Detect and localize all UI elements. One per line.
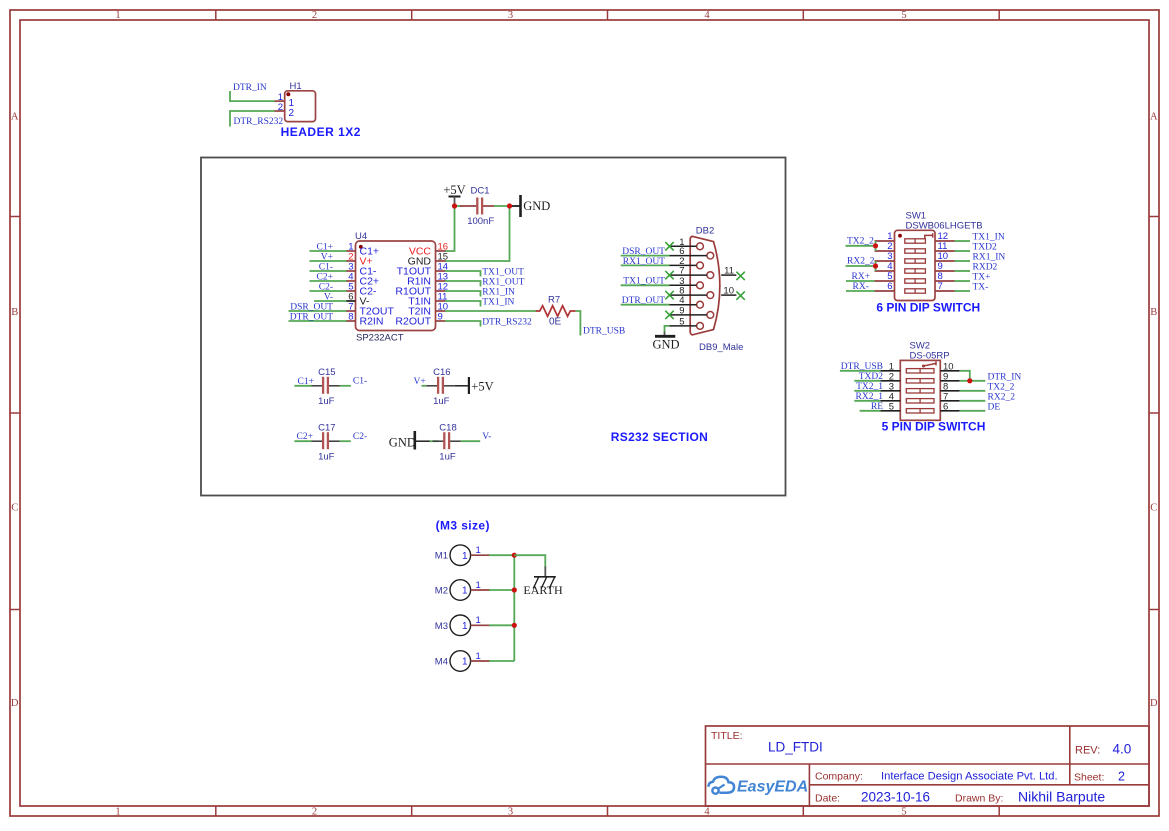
SW2 pin 7	[940, 400, 959, 402]
svg-text:EasyEDA: EasyEDA	[737, 779, 808, 796]
svg-text:TX2_2: TX2_2	[988, 382, 1015, 392]
svg-text:DSR_OUT: DSR_OUT	[622, 247, 665, 257]
svg-text:DTR_OUT: DTR_OUT	[622, 296, 665, 306]
svg-text:A: A	[11, 112, 19, 123]
SW1 switch element 5	[905, 279, 926, 283]
junction dot M3	[512, 623, 517, 628]
SW1 pin 4	[875, 270, 895, 272]
svg-text:C2-: C2-	[353, 432, 367, 442]
DB2 pin circle 3	[697, 282, 704, 289]
SW1 pin 9	[935, 270, 955, 272]
SW2 pin 4	[880, 400, 900, 402]
wire SW2 pin10 down to pin9 net	[960, 371, 970, 381]
U4 pin 3	[346, 270, 356, 272]
svg-text:RX1_IN: RX1_IN	[973, 253, 1006, 263]
svg-text:DTR_IN: DTR_IN	[233, 83, 267, 93]
SW1 pin 10	[935, 260, 955, 262]
svg-text:DTR_RS232: DTR_RS232	[482, 318, 532, 328]
svg-text:RE: RE	[871, 402, 883, 412]
SW2 switch element 5	[906, 409, 934, 413]
wire U4 to net RX1_OUT	[445, 281, 481, 287]
DB2 pin circle 6	[707, 252, 714, 259]
U4 pin 5	[346, 290, 356, 292]
wire DC1 to GND node	[494, 205, 510, 207]
svg-text:2: 2	[312, 807, 317, 818]
capacitor C17	[311, 440, 322, 442]
svg-text:DTR_USB: DTR_USB	[841, 362, 883, 372]
DB2 pin 11 lead	[721, 274, 736, 276]
capacitor DC1 plates	[476, 198, 478, 215]
wire M4 to earth bus	[489, 660, 514, 662]
U4 pin 14	[436, 270, 446, 272]
junction dot RX2_2	[873, 263, 878, 268]
SW2 switch element 1	[906, 369, 934, 373]
svg-text:1: 1	[476, 651, 481, 662]
no-connect X on DB2 pin 1	[665, 242, 673, 250]
resistor R7	[536, 306, 576, 317]
wire M2 to earth bus	[489, 589, 514, 591]
wire net RE to SW2 pin 5	[860, 410, 881, 412]
svg-text:RX1_IN: RX1_IN	[482, 288, 515, 298]
junction dot M2	[512, 587, 517, 592]
svg-text:C15: C15	[318, 367, 335, 378]
svg-text:Date:: Date:	[815, 793, 840, 805]
svg-text:DSR_OUT: DSR_OUT	[290, 302, 333, 312]
svg-text:6 PIN DIP SWITCH: 6 PIN DIP SWITCH	[876, 300, 980, 314]
header H1 body	[285, 91, 316, 122]
wire net V- to U4 pin 6	[314, 300, 347, 302]
SW2 pin 5	[880, 410, 900, 412]
svg-text:DTR_RS232: DTR_RS232	[234, 117, 284, 127]
svg-text:+5V: +5V	[471, 379, 493, 393]
SW1 switch element 3	[905, 259, 926, 263]
svg-text:1: 1	[476, 580, 481, 591]
wire DTR_RS232 to H1 pin2	[230, 111, 275, 127]
mounting hole M1	[450, 545, 471, 566]
wire SW1 pin 11 to net TXD2	[955, 250, 971, 252]
svg-text:DSWB06LHGETB: DSWB06LHGETB	[906, 220, 983, 231]
U4 pin 1	[346, 250, 356, 252]
wire U4 to net TX1_OUT	[445, 271, 481, 277]
svg-text:DE: DE	[988, 402, 1001, 412]
svg-text:M3: M3	[435, 621, 448, 632]
DB2 pin 10 lead	[721, 294, 736, 296]
svg-text:C1+: C1+	[298, 377, 314, 387]
svg-text:7: 7	[938, 281, 943, 292]
svg-text:10: 10	[723, 285, 734, 296]
wire SW1 pin 12 to net TX1_IN	[955, 240, 971, 242]
svg-text:C17: C17	[318, 422, 335, 433]
U4 pin 7	[346, 310, 356, 312]
M3 pin 1	[471, 624, 490, 626]
svg-text:LD_FTDI: LD_FTDI	[768, 740, 823, 755]
svg-text:4: 4	[704, 10, 710, 21]
svg-text:C18: C18	[439, 422, 456, 433]
wire M3 to earth bus	[489, 624, 514, 626]
svg-text:M1: M1	[435, 551, 448, 562]
svg-text:3: 3	[508, 10, 513, 21]
svg-text:100nF: 100nF	[467, 216, 494, 227]
wire net DSR_OUT to DB2 pin 6	[621, 255, 670, 257]
svg-text:TX+: TX+	[973, 273, 991, 283]
svg-text:EARTH: EARTH	[523, 583, 563, 597]
SW1 pin 1	[875, 240, 895, 242]
svg-text:6: 6	[943, 402, 948, 413]
svg-text:GND: GND	[523, 199, 550, 213]
no-connect X on DB2 pin 8	[665, 291, 673, 299]
wire GND to C18	[430, 440, 439, 442]
SW2 pin 1	[880, 370, 900, 372]
svg-text:C1-: C1-	[319, 262, 333, 272]
wire net DTR_USB to SW2 pin 1	[840, 370, 880, 372]
SW2 switch element 2	[906, 379, 934, 383]
svg-text:TX1_OUT: TX1_OUT	[482, 268, 524, 278]
wire net DSR_OUT to U4 pin 7	[289, 310, 347, 312]
SW1 actuator mark	[925, 233, 933, 239]
svg-text:C2+: C2+	[297, 432, 313, 442]
wire net RX+ to SW1 pin5	[846, 280, 875, 282]
svg-text:TX1_IN: TX1_IN	[482, 298, 514, 308]
switch SW2 body	[900, 360, 940, 420]
junction dot at +5V node	[452, 203, 457, 208]
frame column ticks bottom	[215, 806, 217, 816]
svg-text:Drawn By:: Drawn By:	[955, 793, 1003, 805]
svg-text:3: 3	[508, 807, 513, 818]
SW1 pin1 dot	[898, 234, 902, 238]
connector DB2 body	[690, 236, 720, 335]
svg-text:2023-10-16: 2023-10-16	[861, 790, 930, 805]
svg-text:1uF: 1uF	[439, 452, 456, 463]
wire net C2+ to U4 pin 4	[310, 280, 347, 282]
svg-text:RX1_OUT: RX1_OUT	[482, 278, 524, 288]
svg-text:C2+: C2+	[317, 272, 333, 282]
svg-text:M4: M4	[435, 657, 448, 668]
capacitor DC1 pin 1	[460, 205, 477, 207]
SW1 switch element 4	[905, 269, 926, 273]
svg-text:C1+: C1+	[317, 242, 333, 252]
wire GND node down to U4 GND	[445, 206, 510, 261]
wire DB2 pin5 to ground	[665, 326, 670, 332]
header H1 pin 1	[275, 100, 285, 102]
wire earth bus to EARTH symbol	[514, 555, 545, 567]
U4 pin 12	[436, 290, 446, 292]
wire V+ to C16	[422, 385, 427, 387]
header H1 pin1 dot	[286, 92, 290, 96]
wire +5V node down to U4 VCC	[445, 206, 455, 251]
svg-text:DB2: DB2	[696, 226, 714, 237]
wire U4 to net RX1_IN	[445, 291, 481, 297]
svg-text:SP232ACT: SP232ACT	[356, 333, 404, 344]
earth bus vertical wire	[513, 555, 515, 661]
no-connect X on DB2 pin 10	[736, 291, 744, 299]
svg-text:V+: V+	[321, 252, 333, 262]
svg-text:REV:: REV:	[1075, 745, 1100, 757]
svg-text:V-: V-	[482, 432, 491, 442]
svg-text:M2: M2	[435, 586, 448, 597]
no-connect X on DB2 pin 9	[665, 311, 673, 319]
svg-text:GND: GND	[389, 435, 416, 449]
DB2 pin 4 lead	[670, 304, 697, 306]
svg-text:V+: V+	[414, 377, 426, 387]
wire R7 to net DTR_USB	[576, 311, 581, 336]
SW1 pin 12	[935, 240, 955, 242]
svg-text:1uF: 1uF	[318, 452, 335, 463]
wire U4 to net TX1_IN	[445, 301, 481, 307]
svg-text:TX2_2: TX2_2	[847, 236, 874, 246]
wire net RX2_2 to SW1 pins 3-4	[846, 261, 876, 271]
wire U4 pin9 to net DTR_RS232	[445, 321, 481, 327]
U4 pin1 dot	[359, 245, 363, 249]
SW1 pin 6	[875, 290, 895, 292]
wire M1 to earth bus	[489, 554, 514, 556]
frame row ticks right	[1149, 216, 1159, 218]
switch SW1 body	[895, 230, 936, 300]
svg-text:C: C	[11, 503, 18, 514]
wire SW2 pin9 to net DTR_IN	[960, 380, 986, 382]
svg-text:V-: V-	[324, 292, 333, 302]
DB2 pin circle 7	[707, 272, 714, 279]
DB2 pin 2 lead	[670, 264, 697, 266]
SW2 switch element 4	[906, 399, 934, 403]
wire SW2 pin6 to net DE	[960, 410, 986, 412]
SW2 pin 8	[940, 390, 959, 392]
RS232 section boundary box	[201, 158, 786, 496]
svg-text:2: 2	[278, 102, 283, 113]
junction dot DTR_IN	[967, 378, 972, 383]
wire net C1+ to U4 pin 1	[310, 250, 347, 252]
SW1 pin 5	[875, 280, 895, 282]
SW1 pin 2	[875, 250, 895, 252]
svg-text:Sheet:: Sheet:	[1074, 772, 1104, 784]
wire net TX2_2 to SW1 pins 1-2	[846, 241, 876, 251]
wire net TX1_OUT to DB2 pin 3	[621, 284, 670, 286]
svg-text:1: 1	[462, 621, 468, 632]
svg-text:C: C	[1150, 503, 1157, 514]
svg-text:C2-: C2-	[319, 282, 333, 292]
svg-text:DTR_OUT: DTR_OUT	[290, 312, 333, 322]
svg-text:1: 1	[462, 586, 468, 597]
wire SW1 pin 7 to net TX-	[955, 290, 971, 292]
M2 pin 1	[471, 589, 490, 591]
svg-text:1: 1	[115, 807, 120, 818]
svg-text:4: 4	[704, 807, 710, 818]
wire net TXD2 to SW2 pin 2	[854, 380, 880, 382]
SW2 pin 2	[880, 380, 900, 382]
capacitor C18	[433, 440, 444, 442]
svg-text:Nikhil Barpute: Nikhil Barpute	[1018, 789, 1105, 805]
svg-text:DC1: DC1	[471, 186, 490, 197]
power +5V flag at C16	[455, 385, 468, 387]
svg-text:0E: 0E	[549, 316, 562, 327]
frame column ticks top	[215, 10, 217, 20]
wire net C1- to U4 pin 3	[310, 270, 347, 272]
SW1 switch element 6	[905, 289, 926, 293]
capacitor C16	[426, 385, 437, 387]
svg-text:RX2_2: RX2_2	[847, 257, 875, 267]
DB2 pin 6 lead	[670, 255, 707, 257]
svg-text:1: 1	[462, 657, 468, 668]
wire net RX1_OUT to DB2 pin 2	[621, 264, 670, 266]
DB2 pin 7 lead	[670, 274, 707, 276]
junction dot TX2_2	[873, 243, 878, 248]
SW1 pin 8	[935, 280, 955, 282]
DB2 pin 5 lead	[670, 325, 697, 327]
svg-text:1: 1	[476, 545, 481, 556]
M1 pin 1	[471, 554, 490, 556]
M4 pin 1	[471, 660, 490, 662]
svg-text:2: 2	[312, 10, 317, 21]
wire C17 to C2-	[340, 440, 351, 442]
svg-text:2: 2	[1118, 770, 1125, 784]
svg-text:D: D	[11, 698, 19, 709]
svg-text:A: A	[1150, 112, 1158, 123]
ground symbol under DB2	[664, 332, 666, 336]
svg-text:11: 11	[724, 265, 734, 276]
U4 pin 2	[346, 260, 356, 262]
wire net DTR_OUT to DB2 pin 4	[621, 304, 670, 306]
mounting hole M4	[450, 651, 471, 672]
SW1 switch element 2	[905, 249, 926, 253]
svg-text:4.0: 4.0	[1113, 741, 1132, 756]
svg-text:RXD2: RXD2	[973, 263, 998, 273]
svg-text:5: 5	[889, 402, 894, 413]
wire C18 to V-	[461, 440, 481, 442]
wire SW1 pin 9 to net RXD2	[955, 270, 971, 272]
svg-text:5: 5	[901, 807, 906, 818]
svg-text:TX1_IN: TX1_IN	[973, 233, 1005, 243]
U4 pin 13	[436, 280, 446, 282]
svg-text:Interface Design Associate Pvt: Interface Design Associate Pvt. Ltd.	[881, 771, 1058, 783]
svg-text:DTR_USB: DTR_USB	[583, 326, 625, 336]
svg-text:1: 1	[476, 615, 481, 626]
wire net DTR_OUT to U4 pin 8	[289, 320, 347, 322]
DB2 pin circle 4	[697, 301, 704, 308]
svg-text:TX1_OUT: TX1_OUT	[623, 277, 665, 287]
SW2 pin 3	[880, 390, 900, 392]
SW2 pin 9	[940, 380, 959, 382]
no-connect X on DB2 pin 7	[665, 271, 673, 279]
frame row ticks left	[10, 216, 20, 218]
wire net V+ to U4 pin 2	[310, 260, 347, 262]
svg-text:DS-05RP: DS-05RP	[910, 350, 950, 361]
DB2 pin circle 1	[697, 243, 704, 250]
wire net RX2_1 to SW2 pin 4	[854, 400, 880, 402]
svg-text:RX1_OUT: RX1_OUT	[623, 257, 665, 267]
svg-text:TXD2: TXD2	[973, 243, 998, 253]
svg-text:TX2_1: TX2_1	[856, 382, 883, 392]
svg-text:RX-: RX-	[853, 282, 869, 292]
svg-text:Company:: Company:	[815, 771, 863, 783]
svg-text:C1-: C1-	[353, 377, 367, 387]
svg-text:B: B	[11, 307, 18, 318]
SW2 switch element 3	[906, 389, 934, 393]
wire SW1 pin 8 to net TX+	[955, 280, 971, 282]
svg-text:D: D	[1150, 698, 1158, 709]
wire net C2- to U4 pin 5	[310, 290, 347, 292]
capacitor C15	[311, 385, 322, 387]
svg-text:9: 9	[679, 305, 684, 316]
SW2 actuator mark	[923, 361, 937, 366]
svg-text:(M3 size): (M3 size)	[436, 519, 490, 533]
DB2 pin circle 8	[707, 292, 714, 299]
U4 pin 16	[436, 250, 446, 252]
svg-text:RS232 SECTION: RS232 SECTION	[611, 430, 708, 444]
svg-text:RX2_2: RX2_2	[988, 392, 1016, 402]
U4 pin 11	[436, 300, 446, 302]
svg-text:9: 9	[438, 312, 443, 323]
svg-text:R2IN: R2IN	[360, 316, 384, 328]
U4 pin 8	[346, 320, 356, 322]
svg-text:8: 8	[348, 312, 353, 323]
svg-text:1uF: 1uF	[318, 396, 335, 407]
wire C1+ to C15	[294, 385, 311, 387]
svg-text:R2OUT: R2OUT	[395, 316, 431, 328]
wire C2+ to C17	[294, 440, 311, 442]
svg-text:6: 6	[887, 281, 892, 292]
svg-text:2: 2	[289, 108, 295, 119]
title block divider under title row	[706, 763, 1150, 765]
svg-text:TX-: TX-	[973, 283, 989, 293]
U4 pin 15	[436, 260, 446, 262]
DB2 pin circle 9	[707, 312, 714, 319]
svg-text:GND: GND	[653, 337, 680, 351]
svg-text:1: 1	[115, 10, 120, 21]
svg-text:5: 5	[679, 316, 684, 327]
DB2 pin 1 lead	[670, 245, 697, 247]
SW1 pin 11	[935, 250, 955, 252]
svg-text:C16: C16	[433, 367, 450, 378]
wire C15 to C1-	[340, 385, 351, 387]
DB2 pin circle 5	[697, 323, 704, 330]
DB2 pin 9 lead	[670, 314, 707, 316]
SW2 pin 10	[940, 370, 959, 372]
junction dot M1	[512, 553, 517, 558]
svg-text:RX+: RX+	[852, 272, 871, 282]
svg-text:5 PIN DIP SWITCH: 5 PIN DIP SWITCH	[882, 419, 986, 433]
title block divider rev/sheet	[1069, 726, 1071, 785]
op-amp U4 body	[356, 241, 436, 331]
EasyEDA logo cloud	[709, 777, 735, 793]
wire net RX- to SW1 pin6	[846, 290, 875, 292]
svg-text:TXD2: TXD2	[859, 372, 884, 382]
DB2 pin 3 lead	[670, 284, 697, 286]
U4 pin 9	[436, 320, 446, 322]
svg-text:DB9_Male: DB9_Male	[699, 342, 743, 353]
SW1 switch element 1	[905, 239, 926, 243]
header H1 pin 2	[275, 110, 285, 112]
svg-text:DTR_IN: DTR_IN	[988, 372, 1022, 382]
capacitor DC1 pin 2	[483, 205, 495, 207]
SW2 pin 6	[940, 410, 959, 412]
junction dot at GND node	[507, 203, 512, 208]
DB2 pin 8 lead	[670, 294, 707, 296]
SW1 pin 7	[935, 290, 955, 292]
svg-text:5: 5	[901, 10, 906, 21]
wire DTR_IN to H1 pin1	[230, 91, 275, 101]
title block outline	[706, 726, 1150, 806]
svg-text:HEADER 1X2: HEADER 1X2	[281, 125, 361, 139]
U4 pin 10	[436, 310, 446, 312]
svg-text:H1: H1	[290, 81, 302, 92]
mounting hole M3	[450, 615, 471, 636]
no-connect X on DB2 pin 11	[736, 272, 744, 280]
U4 pin 6	[346, 300, 356, 302]
title block divider company/date	[809, 784, 1149, 786]
wire SW2 pin8 to net TX2_2	[960, 390, 986, 392]
wire U4 pin10 to R7	[445, 310, 537, 312]
title block divider logo cell	[808, 764, 810, 806]
earth symbol	[544, 567, 546, 577]
